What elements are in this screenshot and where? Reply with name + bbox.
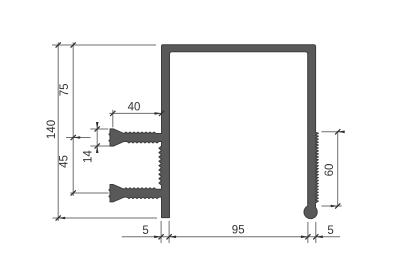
svg-text:95: 95	[232, 225, 245, 237]
svg-text:14: 14	[82, 150, 94, 163]
svg-text:75: 75	[59, 84, 71, 97]
svg-text:45: 45	[59, 155, 71, 168]
svg-text:140: 140	[46, 120, 58, 139]
svg-text:40: 40	[128, 101, 141, 113]
svg-text:5: 5	[142, 225, 148, 237]
svg-text:5: 5	[327, 225, 333, 237]
svg-text:60: 60	[324, 164, 336, 177]
